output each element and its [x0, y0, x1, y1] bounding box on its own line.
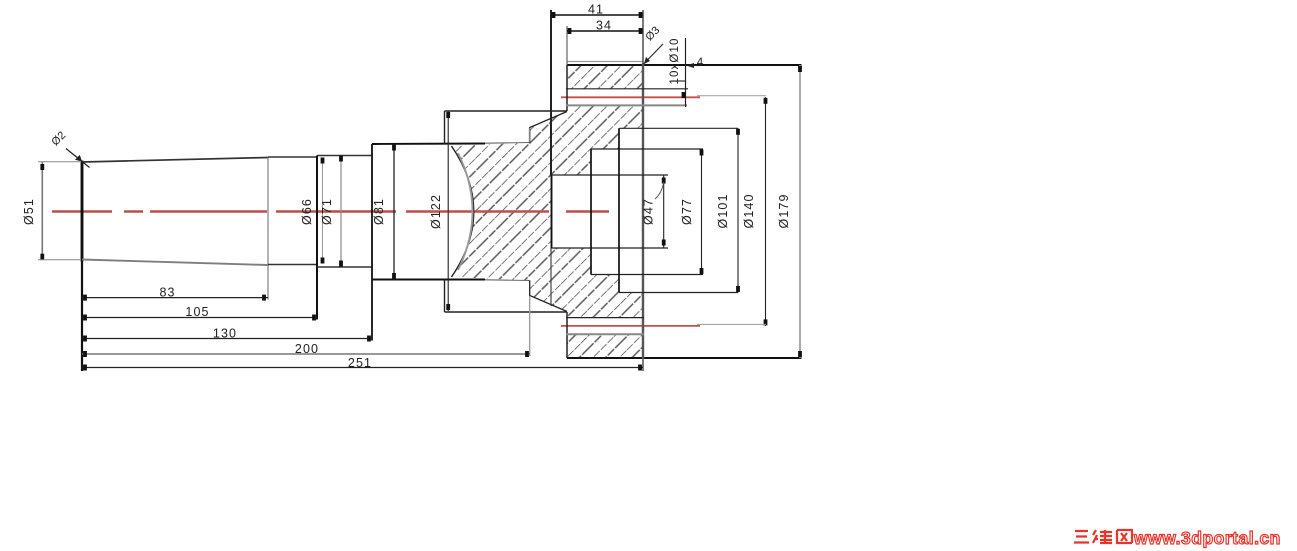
- flange right face: [642, 63, 644, 359]
- phi77 arrow top: [700, 150, 704, 156]
- phi47 bore bottom edge + ext: [552, 247, 669, 249]
- svg-text:Ø66: Ø66: [300, 198, 314, 225]
- svg-text:83: 83: [159, 286, 175, 300]
- segment3 top edge: [317, 155, 372, 157]
- bolt hole bottom (white): [566, 318, 644, 334]
- phi47 bore bottom face: [551, 175, 553, 248]
- cavity top thin edge: [485, 142, 530, 145]
- phi47 arrow bottom: [662, 240, 666, 246]
- phi122 arrow bottom: [446, 304, 450, 310]
- phi81 bottom edge: [372, 279, 485, 281]
- flange/bell cross-section hatched material: [452, 65, 644, 358]
- svg-text:Ø101: Ø101: [716, 194, 730, 229]
- phi51 dim line: [41, 162, 43, 260]
- 130 arrow left: [83, 336, 87, 342]
- bolt hole2 top edge: [566, 317, 644, 319]
- bolt hole centerline top: [561, 96, 700, 98]
- phi81 dim line: [393, 144, 395, 280]
- 34 arrow right: [639, 28, 643, 34]
- 105 arrow right: [312, 315, 316, 321]
- phi47 text leader curve: [655, 182, 664, 199]
- dim 105 line: [82, 317, 317, 319]
- ball track curve (black): [452, 146, 474, 277]
- phi71 arrow bottom: [339, 261, 343, 267]
- 41 arrow right: [639, 12, 643, 18]
- svg-text:4: 4: [697, 57, 705, 69]
- 200 arrow right: [525, 351, 529, 357]
- main centerline: [52, 210, 609, 212]
- gray companion line top: [567, 61, 643, 63]
- svg-text:Ø140: Ø140: [742, 194, 756, 229]
- phi51 top ext: [38, 161, 80, 163]
- bell OD top edge: [445, 110, 568, 112]
- phi47/phi77 step face: [590, 149, 592, 275]
- phi71 dim line: [340, 156, 342, 266]
- dim 130 line: [82, 338, 372, 340]
- phi77 bore bottom edge + ext: [591, 274, 703, 276]
- chamfer leader right: [644, 44, 664, 64]
- 83 arrow right: [262, 295, 266, 301]
- phi66 arrow bottom: [321, 258, 325, 264]
- dim 4 arrow: [687, 65, 702, 67]
- bolt hole centerline bottom: [561, 325, 700, 327]
- svg-text:Ø47: Ø47: [642, 198, 656, 225]
- rim left face bottom: [566, 312, 568, 358]
- phi66 arrow top: [321, 158, 325, 164]
- chamfer leader left: [66, 149, 90, 168]
- phi81 arrow bottom: [392, 273, 396, 279]
- 41 arrow left: [552, 12, 556, 18]
- 10xphi10 tick: [671, 80, 686, 82]
- flange bottom edge + ext: [567, 357, 802, 359]
- flange top edge + ext to phi179 dim: [567, 64, 802, 66]
- web face / ext line x=551: [550, 10, 552, 175]
- svg-text:200: 200: [295, 342, 319, 356]
- dim 41 line: [551, 14, 643, 16]
- ext line x=643 bottom: [642, 359, 644, 371]
- cavity bottom thin edge: [485, 279, 530, 282]
- svg-text:130: 130: [213, 327, 237, 341]
- 105 arrow left: [83, 315, 87, 321]
- shaft left end face: [81, 161, 84, 262]
- phi77/phi101 step face: [618, 128, 620, 292]
- 200 arrow left: [83, 351, 87, 357]
- phi101 bore top edge + ext: [619, 127, 738, 129]
- bell mouth edge x=530: [528, 128, 530, 142]
- phi81 top edge: [372, 143, 485, 146]
- phi47 dim line: [663, 175, 665, 248]
- svg-text:251: 251: [348, 356, 372, 370]
- 10xphi10 leader vertical: [685, 38, 687, 107]
- phi140 dim line: [765, 97, 767, 326]
- phi101 bore bottom edge + ext: [619, 292, 738, 294]
- svg-text:10xØ10: 10xØ10: [669, 38, 681, 85]
- phi122 arrow top: [446, 112, 450, 118]
- phi140 arrow top: [764, 98, 768, 104]
- svg-text:Ø77: Ø77: [680, 198, 694, 225]
- 34 arrow left: [568, 28, 572, 34]
- phi66 dim line: [322, 158, 324, 263]
- track tangent curve (gray): [458, 153, 473, 270]
- web face lower: [550, 248, 552, 306]
- phi101 arrow bottom: [736, 286, 740, 292]
- step edge x=372 + ext: [371, 144, 373, 341]
- phi179 arrow bottom: [798, 351, 802, 357]
- phi179 arrow top: [798, 66, 802, 72]
- segment3 bottom edge: [317, 266, 372, 268]
- segment2 top edge: [268, 156, 317, 158]
- phi81 arrow top: [392, 145, 396, 151]
- bolt hole top edge: [566, 88, 688, 90]
- edge + ext line x=268: [267, 158, 269, 300]
- bell back face top: [444, 111, 446, 144]
- bell mouth top slant: [530, 112, 567, 143]
- svg-text:Ø51: Ø51: [22, 198, 36, 225]
- dim 251 line: [82, 367, 643, 369]
- phi101 arrow top: [736, 129, 740, 135]
- svg-text:Ø179: Ø179: [777, 194, 791, 229]
- svg-text:41: 41: [588, 3, 604, 17]
- step edge x=317 + ext: [316, 156, 318, 320]
- phi47 bore top edge + ext: [552, 174, 669, 176]
- phi77 bore top edge + ext: [591, 148, 703, 150]
- taper top edge: [82, 158, 268, 163]
- phi101 dim line: [737, 128, 739, 292]
- dim 83 line: [82, 297, 268, 299]
- bell OD bottom edge: [445, 311, 568, 313]
- svg-text:Ø81: Ø81: [372, 198, 386, 225]
- svg-text:Ø122: Ø122: [429, 194, 443, 229]
- phi122 dim line: [447, 111, 449, 311]
- phi51 bottom arrow: [40, 254, 44, 260]
- bolt hole bottom edge: [566, 104, 687, 106]
- phi179 dim line: [799, 65, 801, 358]
- ext line x=643 top: [642, 10, 644, 63]
- ext line x=567: [566, 26, 568, 65]
- bolt hole2 bottom edge: [566, 333, 644, 335]
- rim left face top: [566, 65, 568, 111]
- dim 34 line: [567, 30, 643, 32]
- taper bottom edge: [82, 260, 268, 266]
- bell mouth bottom slant: [530, 281, 567, 312]
- bell back face bottom: [444, 280, 446, 313]
- ext line x=82 bottom: [81, 262, 83, 372]
- segment2 bottom edge: [268, 264, 317, 266]
- phi71 arrow top: [339, 156, 343, 162]
- svg-text:Ø71: Ø71: [320, 198, 334, 225]
- bolt hole top (white): [566, 89, 644, 105]
- phi51 top arrow: [40, 164, 44, 170]
- dim 200 line: [82, 353, 530, 355]
- 251 arrow left: [83, 365, 87, 371]
- phi140 ext top: [697, 95, 766, 97]
- phi140 arrow bottom: [764, 319, 768, 325]
- phi51 bottom ext: [38, 259, 80, 261]
- phi77 arrow bottom: [700, 268, 704, 274]
- phi140 ext bottom: [697, 323, 766, 325]
- 10xphi10 arrow: [682, 92, 686, 98]
- svg-text:34: 34: [596, 19, 612, 33]
- 83 arrow left: [83, 295, 87, 301]
- ext line x=530: [529, 296, 531, 356]
- 130 arrow right: [367, 336, 371, 342]
- 251 arrow right: [638, 365, 642, 371]
- svg-text:105: 105: [185, 305, 209, 319]
- phi77 dim line: [701, 149, 703, 275]
- phi47 arrow top: [662, 178, 666, 184]
- watermark 三维网www.3dportal.cn: [1072, 527, 1281, 549]
- bore cavity white: [552, 128, 645, 292]
